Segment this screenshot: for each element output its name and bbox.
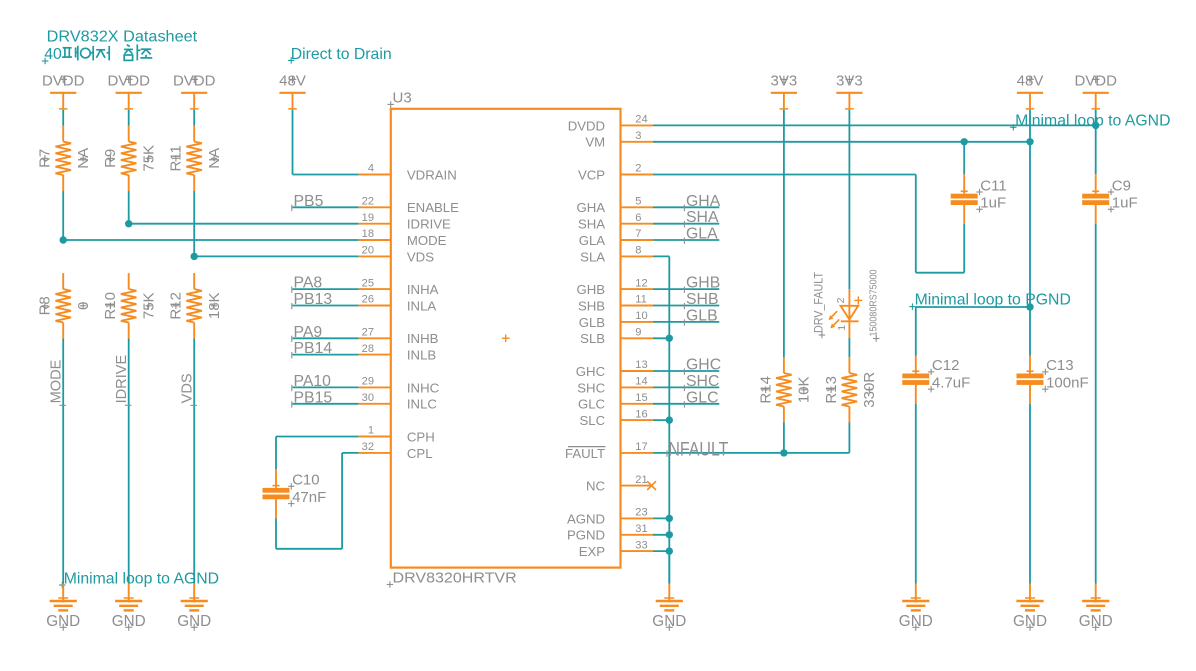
resistor R12 18K — [168, 273, 223, 339]
svg-text:GHB: GHB — [577, 282, 606, 297]
svg-text:SHC: SHC — [686, 373, 719, 390]
wire R9 to IDRIVE node — [128, 191, 130, 224]
pin 23 AGND — [567, 507, 653, 527]
text Direct to Drain — [288, 46, 392, 64]
svg-text:26: 26 — [362, 294, 374, 306]
wire VCP down — [915, 175, 917, 273]
svg-text:16: 16 — [635, 408, 647, 420]
wire SHB stub — [653, 305, 719, 307]
power 3V3 — [771, 72, 798, 110]
wire C9 to GND — [1095, 224, 1097, 584]
pin 19 IDRIVE — [359, 212, 451, 232]
svg-text:GHA: GHA — [686, 193, 721, 210]
svg-text:2: 2 — [835, 297, 847, 303]
svg-text:INHB: INHB — [407, 331, 439, 346]
svg-text:28: 28 — [362, 343, 374, 355]
svg-text:11: 11 — [635, 294, 647, 306]
svg-text:C12: C12 — [932, 357, 960, 374]
wire 48V down — [292, 110, 294, 175]
svg-text:NFAULT: NFAULT — [668, 440, 728, 461]
wire SLC pin 16 — [653, 419, 669, 421]
svg-text:3: 3 — [635, 130, 641, 142]
pin 28 INLB — [359, 343, 437, 363]
svg-text:ENABLE: ENABLE — [407, 200, 459, 215]
svg-text:Minimal loop to AGND: Minimal loop to AGND — [64, 570, 219, 587]
junction SLC — [666, 416, 673, 423]
svg-text:32: 32 — [362, 441, 374, 453]
pin 16 SLC — [579, 408, 653, 428]
text Minimal loop to AGND (bottom left) — [59, 570, 219, 588]
svg-text:2: 2 — [635, 163, 641, 175]
capacitor C9 1uF — [1082, 174, 1137, 224]
wire 3V3 to R14 — [783, 110, 785, 357]
net label SHB — [684, 291, 718, 309]
LED D1 DRV_FAULT — [829, 289, 863, 338]
svg-text:SHB: SHB — [578, 298, 605, 313]
svg-text:23: 23 — [635, 507, 647, 519]
svg-text:10: 10 — [635, 310, 647, 322]
net label IDRIVE — [114, 354, 131, 405]
svg-text:SHA: SHA — [578, 217, 605, 232]
svg-text:SLC: SLC — [579, 413, 605, 428]
pin 33 EXP — [579, 539, 653, 559]
resistor R7 NA — [37, 126, 92, 192]
pin 17 FAULT — [565, 441, 653, 461]
resistor R10 75K — [102, 273, 157, 339]
wire AGND pin 23 — [653, 517, 669, 519]
capacitor C12 4.7uF — [902, 356, 970, 404]
svg-text:31: 31 — [635, 523, 647, 535]
svg-text:100nF: 100nF — [1046, 374, 1089, 391]
pin 6 SHA — [578, 212, 653, 232]
svg-text:PA8: PA8 — [294, 275, 323, 292]
text Minimal loop to AGND (top right) — [1010, 112, 1170, 130]
svg-text:GHB: GHB — [686, 275, 720, 292]
ground GND — [899, 584, 933, 631]
svg-text:GLC: GLC — [686, 389, 718, 406]
svg-text:PB15: PB15 — [294, 389, 333, 406]
svg-text:9: 9 — [635, 327, 641, 339]
text DRV832X Datasheet note — [47, 28, 198, 45]
resistor R11 NA — [168, 126, 223, 192]
wire SHA stub — [653, 223, 719, 225]
pin 24 DVDD — [568, 114, 653, 134]
wire 48V to VDRAIN pin 4 — [293, 174, 359, 176]
net label GLB — [684, 307, 717, 325]
pin 1 CPH — [359, 425, 435, 445]
svg-text:VDS: VDS — [407, 249, 434, 264]
junction NFAULT R14 — [780, 449, 787, 456]
wire SLA bus down to GND — [668, 256, 670, 583]
wire R14 to NFAULT — [783, 423, 785, 453]
wire R12 to GND — [193, 339, 195, 584]
wire SHC stub — [653, 386, 719, 388]
svg-text:PB13: PB13 — [294, 291, 333, 308]
svg-text:22: 22 — [362, 196, 374, 208]
pin 7 GLA — [579, 228, 653, 248]
pin 30 INLC — [359, 392, 438, 412]
wire IC GND — [668, 551, 670, 583]
svg-text:DVDD: DVDD — [568, 118, 605, 133]
svg-text:8: 8 — [635, 245, 641, 257]
svg-text:SLA: SLA — [580, 249, 605, 264]
svg-text:CPL: CPL — [407, 446, 433, 461]
svg-text:30: 30 — [362, 392, 374, 404]
junction MODE node — [60, 236, 67, 243]
pin 5 GHA — [577, 196, 653, 216]
svg-text:29: 29 — [362, 376, 374, 388]
svg-text:VCP: VCP — [578, 167, 605, 182]
wire CPH pin 1 — [276, 436, 359, 438]
pin 27 INHB — [359, 327, 439, 347]
wire 48V right down — [1029, 110, 1031, 356]
wire VCP loop bottom — [916, 272, 964, 274]
wire CPL pin 32 — [342, 452, 359, 454]
wire EXP pin 33 — [653, 550, 669, 552]
resistor R9 75K — [102, 126, 157, 192]
wire GLC stub — [653, 403, 719, 405]
pin 25 INHA — [359, 277, 439, 297]
wire C10 bottom across — [276, 548, 342, 550]
pin 26 INLA — [359, 294, 437, 314]
svg-text:IDRIVE: IDRIVE — [114, 354, 130, 403]
wire NFAULT row — [653, 452, 849, 454]
net label GHA — [684, 193, 720, 211]
wire DVDD row pin 24 — [653, 124, 1096, 126]
svg-text:15: 15 — [635, 392, 647, 404]
svg-text:INHC: INHC — [407, 380, 440, 395]
wire GLA stub — [653, 239, 719, 241]
svg-text:PA10: PA10 — [294, 373, 332, 390]
svg-text:GLB: GLB — [579, 315, 606, 330]
net label MODE — [49, 359, 66, 405]
ground GND — [1013, 584, 1047, 631]
svg-text:C9: C9 — [1112, 177, 1131, 194]
power DVDD — [42, 72, 85, 110]
svg-text:DRV8320HRTVR: DRV8320HRTVR — [393, 569, 517, 586]
junction DVDD C9 — [1092, 122, 1099, 129]
wire LED to R13 — [848, 338, 850, 357]
resistor R14 10K — [757, 357, 812, 423]
svg-text:Minimal loop to PGND: Minimal loop to PGND — [915, 292, 1071, 309]
power 3V3 — [836, 72, 863, 110]
svg-text:CPH: CPH — [407, 429, 435, 444]
junction PGND — [666, 531, 673, 538]
net label VDS — [180, 373, 197, 405]
wire MODE row to pin 18 — [63, 239, 358, 241]
junction SLB — [666, 335, 673, 342]
wire C10 down — [275, 519, 277, 549]
svg-text:20: 20 — [362, 245, 374, 257]
svg-text:1uF: 1uF — [1112, 195, 1138, 212]
ground GND — [46, 584, 80, 631]
pin 20 VDS — [359, 245, 435, 265]
svg-text:GLA: GLA — [579, 233, 606, 248]
ground GND — [112, 584, 146, 631]
wire R11 to VDS node — [193, 191, 195, 257]
svg-text:PB14: PB14 — [294, 340, 333, 357]
svg-text:SLB: SLB — [580, 331, 605, 346]
wire C12 top — [915, 307, 917, 356]
net label PA9 — [292, 324, 323, 342]
svg-text:MODE: MODE — [407, 233, 447, 248]
svg-text:1uF: 1uF — [980, 195, 1006, 212]
wire GHA stub — [653, 206, 719, 208]
svg-text:SHB: SHB — [686, 291, 718, 308]
pin 2 VCP — [578, 163, 653, 183]
svg-text:14: 14 — [635, 376, 647, 388]
svg-text:GHC: GHC — [686, 357, 721, 374]
svg-text:DRV832X Datasheet: DRV832X Datasheet — [47, 28, 198, 45]
pin 12 GHB — [577, 277, 653, 297]
wire R8 to GND — [62, 339, 64, 584]
svg-text:GHA: GHA — [577, 200, 606, 215]
pin 29 INHC — [359, 376, 440, 396]
text Minimal loop to PGND — [909, 292, 1071, 310]
junction VM 48V — [1026, 138, 1033, 145]
svg-text:MODE: MODE — [49, 359, 65, 403]
wire R13 to NFAULT — [848, 423, 850, 453]
net label PB15 — [292, 389, 333, 407]
net label GHC — [684, 357, 721, 375]
svg-text:INLC: INLC — [407, 397, 438, 412]
svg-text:17: 17 — [635, 441, 647, 453]
net label PB13 — [292, 291, 333, 309]
svg-text:SHA: SHA — [686, 209, 719, 226]
wire DVDD to R7 — [62, 110, 64, 126]
pin 32 CPL — [359, 441, 433, 461]
ground GND — [652, 584, 686, 631]
junction VDS node — [191, 253, 198, 260]
net label GLA — [684, 226, 718, 244]
wire PGND pin 31 — [653, 534, 669, 536]
ground GND — [1079, 584, 1113, 631]
svg-text:U3: U3 — [393, 90, 412, 107]
pin 22 ENABLE — [359, 196, 460, 216]
junction PGND loop — [1026, 303, 1033, 310]
wire CPH down to C10 — [275, 437, 277, 470]
wire VCP row pin 2 — [653, 174, 916, 176]
pin 9 SLB — [580, 327, 653, 347]
power DVDD — [1074, 72, 1117, 110]
svg-text:13: 13 — [635, 359, 647, 371]
svg-text:GLB: GLB — [686, 307, 718, 324]
wire VM row pin 3 — [653, 141, 1030, 143]
pin 14 SHC — [577, 376, 653, 396]
pin 8 SLA — [580, 245, 653, 265]
svg-text:GLC: GLC — [578, 397, 606, 412]
wire DVDD right down — [1095, 110, 1097, 174]
junction EXP — [666, 547, 673, 554]
capacitor C13 100nF — [1017, 356, 1089, 404]
wire C13 to GND — [1029, 404, 1031, 584]
wire C12 to GND — [915, 404, 917, 584]
pin 18 MODE — [359, 228, 447, 248]
wire 3V3 to LED — [848, 110, 850, 289]
wire R7 to MODE node — [62, 191, 64, 240]
junction IDRIVE node — [125, 220, 132, 227]
reference U3 — [388, 90, 412, 108]
svg-text:NC: NC — [586, 479, 606, 494]
resistor R13 330R — [823, 357, 878, 423]
pin 21 NC — [586, 474, 653, 494]
wire GLB stub — [653, 321, 719, 323]
svg-text:4: 4 — [368, 163, 374, 175]
wire PA8 stub — [293, 288, 359, 290]
wire GHB stub — [653, 288, 719, 290]
wire up to CPL — [341, 453, 343, 549]
pin 3 VM — [585, 130, 653, 150]
wire VM to C11 — [963, 142, 965, 175]
svg-text:47nF: 47nF — [292, 489, 326, 506]
svg-text:VDRAIN: VDRAIN — [407, 167, 457, 182]
net label PB5 — [292, 193, 324, 211]
power DVDD — [173, 72, 216, 110]
svg-text:1: 1 — [368, 425, 374, 437]
power 48V — [1017, 72, 1044, 110]
svg-text:VDS: VDS — [180, 373, 196, 403]
svg-text:21: 21 — [635, 474, 647, 486]
svg-text:AGND: AGND — [567, 511, 605, 526]
svg-text:INLA: INLA — [407, 298, 437, 313]
wire PGND loop — [916, 306, 1030, 308]
svg-text:25: 25 — [362, 277, 374, 289]
svg-text:12: 12 — [635, 277, 647, 289]
junction AGND — [666, 515, 673, 522]
wire PB14 stub — [293, 354, 359, 356]
net label SHC — [684, 373, 719, 391]
wire DVDD to R9 — [128, 110, 130, 126]
svg-text:C10: C10 — [292, 472, 320, 489]
wire IDRIVE row to pin 19 — [129, 223, 359, 225]
pin 10 GLB — [579, 310, 653, 330]
net label NFAULT — [667, 440, 729, 461]
svg-text:5: 5 — [635, 196, 641, 208]
svg-text:6: 6 — [635, 212, 641, 224]
wire PA10 stub — [293, 386, 359, 388]
op-amp U3 DRV8320HRTVR body — [391, 109, 621, 568]
net label SHA — [684, 209, 719, 227]
wire C11 bottom — [963, 224, 965, 273]
svg-text:C11: C11 — [980, 177, 1006, 194]
wire PB13 stub — [293, 305, 359, 307]
wire GHC stub — [653, 370, 719, 372]
svg-text:40: 40 — [44, 46, 62, 63]
wire DVDD to R11 — [193, 110, 195, 126]
svg-text:INHA: INHA — [407, 282, 439, 297]
svg-text:EXP: EXP — [579, 544, 606, 559]
LED value 150080RS75000 — [868, 269, 879, 342]
svg-text:SHC: SHC — [577, 380, 605, 395]
capacitor C11 1uF — [951, 174, 1007, 224]
net label GLC — [684, 389, 718, 407]
wire R10 to GND — [128, 339, 130, 584]
svg-text:Direct to Drain: Direct to Drain — [291, 46, 392, 63]
ground GND — [177, 584, 211, 631]
svg-text:C13: C13 — [1046, 357, 1074, 374]
pin 15 GLC — [578, 392, 653, 412]
net label PB14 — [292, 340, 333, 358]
pin 13 GHC — [576, 359, 653, 379]
wire VDS row to pin 20 — [194, 255, 358, 257]
wire PB15 stub — [293, 403, 359, 405]
no-connect pin 21 — [647, 481, 656, 490]
svg-text:18: 18 — [362, 228, 374, 240]
svg-text:24: 24 — [635, 114, 647, 126]
svg-text:VM: VM — [585, 135, 605, 150]
power DVDD — [107, 72, 150, 110]
svg-text:4.7uF: 4.7uF — [932, 374, 970, 391]
net label GHB — [684, 275, 720, 293]
wire SLB pin 9 — [653, 337, 669, 339]
text 40 page reference (Korean) — [42, 44, 152, 64]
svg-text:27: 27 — [362, 327, 374, 339]
svg-text:FAULT: FAULT — [565, 446, 605, 461]
svg-text:150080RS75000: 150080RS75000 — [868, 269, 879, 336]
svg-text:INLB: INLB — [407, 348, 437, 363]
svg-text:GLA: GLA — [686, 226, 718, 243]
junction VM C11 — [961, 138, 968, 145]
svg-text:PB5: PB5 — [294, 193, 324, 210]
net label PA8 — [292, 275, 323, 293]
value DRV8320HRTVR — [387, 569, 517, 587]
power 48V — [279, 72, 306, 110]
resistor R8 0 — [37, 273, 92, 339]
pin 4 VDRAIN — [359, 163, 457, 183]
net label PA10 — [292, 373, 331, 391]
svg-text:IDRIVE: IDRIVE — [407, 217, 451, 232]
capacitor C10 47nF — [263, 469, 327, 519]
svg-text:PGND: PGND — [567, 528, 605, 543]
wire PA9 stub — [293, 337, 359, 339]
svg-text:7: 7 — [635, 228, 641, 240]
wire PB5 stub — [293, 206, 359, 208]
svg-text:GHC: GHC — [576, 364, 606, 379]
svg-text:PA9: PA9 — [294, 324, 323, 341]
svg-text:33: 33 — [635, 539, 647, 551]
svg-text:19: 19 — [362, 212, 374, 224]
wire SLA pin 8 — [653, 255, 669, 257]
svg-text:DRV_FAULT: DRV_FAULT — [812, 272, 826, 333]
pin 31 PGND — [567, 523, 653, 543]
LED label DRV_FAULT — [812, 272, 826, 339]
pin 11 SHB — [578, 294, 653, 314]
svg-text:1: 1 — [836, 325, 848, 331]
